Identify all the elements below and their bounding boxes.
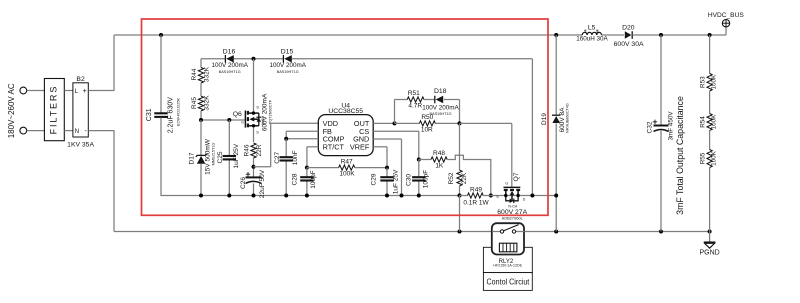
relay RLY2 contact — [500, 225, 518, 234]
wire R51 to D18 — [424, 99, 435, 101]
label RLY2 — [499, 259, 514, 265]
fuse B2 — [73, 83, 88, 137]
wire rail to R44 — [200, 59, 202, 68]
label U4 UCC38C55 — [328, 108, 363, 115]
resistor R47 — [339, 165, 355, 170]
diode D20 — [625, 31, 632, 39]
svg-text:Contol Circiut: Contol Circiut — [487, 277, 530, 287]
svg-text:100V 200mA: 100V 200mA — [211, 62, 248, 69]
svg-text:R53: R53 — [700, 76, 707, 88]
resistor R44 — [198, 68, 203, 84]
wire CS net — [373, 131, 419, 159]
svg-text:1uF 25V: 1uF 25V — [233, 143, 240, 168]
label L5 — [588, 24, 596, 31]
wire R54 to R55 — [709, 131, 711, 150]
label U4 pin VDD — [323, 119, 338, 128]
highlight box — [142, 19, 549, 215]
label D17 value 15V 500mW — [204, 138, 211, 175]
label D19 value 600V 8A — [559, 107, 566, 133]
label 180V~260V AC — [7, 83, 16, 138]
label Q6 value 600V 200mA — [261, 93, 268, 131]
svg-text:D: D — [256, 106, 259, 110]
wire filters to B2 (L) — [64, 90, 73, 92]
label R47 — [341, 158, 353, 165]
svg-text:N: N — [75, 128, 79, 135]
label R53 — [700, 76, 707, 88]
control circuit box — [483, 273, 532, 291]
label D18 — [434, 88, 447, 95]
svg-text:C30: C30 — [406, 174, 413, 186]
svg-text:D: D — [523, 198, 526, 202]
svg-text:R54: R54 — [700, 116, 707, 128]
label C32 value 3mF 450V — [667, 111, 674, 141]
wire C26 to rail — [253, 183, 255, 195]
svg-text:C31: C31 — [146, 108, 153, 121]
capacitor C27 — [280, 157, 293, 160]
wire to PGND — [709, 232, 711, 243]
wire C27 drop — [285, 139, 287, 196]
transistor Q7 — [491, 187, 556, 203]
svg-text:R45: R45 — [191, 97, 198, 109]
wire C30 drop — [418, 160, 420, 196]
label C31 partno — [176, 98, 180, 126]
svg-text:600V 200mA: 600V 200mA — [261, 93, 268, 131]
svg-text:L: L — [75, 88, 79, 95]
label L5 value 160uH 30A — [576, 36, 608, 43]
label C30 value 100pF — [423, 170, 430, 188]
wire top bus right — [632, 34, 726, 36]
label R45 — [191, 97, 198, 109]
label D19 partno — [566, 103, 570, 133]
wire OUT net — [373, 122, 394, 124]
svg-text:600V 30A: 600V 30A — [614, 41, 644, 48]
svg-text:22K: 22K — [461, 172, 468, 184]
zener D17 — [196, 154, 207, 164]
relay RLY2 coil — [499, 243, 517, 252]
wire bus inside relay right — [516, 231, 525, 233]
junction rail / C29 — [385, 194, 389, 198]
label R49 value 0.1R 1W — [463, 199, 489, 206]
wire B2 N to bottom bus — [88, 130, 114, 231]
label U4 pin GND — [353, 135, 369, 144]
svg-text:160uH 30A: 160uH 30A — [576, 36, 608, 43]
wire L terminal to filters — [27, 90, 45, 92]
junction rail / C26 — [252, 194, 256, 198]
label B2 pin + — [83, 86, 87, 95]
svg-text:D15: D15 — [281, 48, 294, 55]
svg-text:D17: D17 — [188, 152, 195, 164]
wire GND net — [373, 139, 401, 196]
svg-text:NRVUB860CT4G: NRVUB860CT4G — [566, 103, 570, 133]
svg-text:100pF: 100pF — [423, 170, 430, 188]
label R54 value 100K — [711, 114, 718, 130]
label C29 — [371, 173, 378, 185]
junction RT/CT / R47 / C28 — [305, 166, 309, 170]
svg-text:4.7R: 4.7R — [408, 102, 422, 109]
junction D19 line / drain wire — [554, 194, 558, 198]
junction top bus / D19 — [554, 33, 558, 37]
svg-text:22uF 50V: 22uF 50V — [259, 169, 266, 198]
capacitor C31 — [154, 113, 167, 117]
label R48 value 1K — [435, 162, 444, 169]
svg-text:G: G — [241, 120, 244, 124]
wire D19 upper — [555, 35, 557, 115]
capacitor C26 — [246, 177, 262, 183]
label Q7 N-CH — [508, 204, 517, 208]
svg-text:RT/CT: RT/CT — [323, 143, 345, 152]
wire gate drive — [460, 123, 512, 187]
resistor R54 — [707, 114, 712, 131]
svg-text:ECW-FD2J225K: ECW-FD2J225K — [176, 98, 180, 126]
label B2 pin L — [75, 88, 79, 95]
label Q7 — [513, 172, 520, 181]
label C30 — [406, 174, 413, 186]
svg-text:22R: 22R — [256, 144, 263, 156]
svg-text:BAS19HT1G: BAS19HT1G — [277, 70, 299, 74]
label Q6 pin G — [241, 120, 244, 124]
label B2 — [76, 76, 85, 83]
svg-text:100V 200mA: 100V 200mA — [422, 104, 459, 111]
junction OUT loop left — [393, 121, 397, 125]
svg-text:R49: R49 — [470, 186, 482, 193]
svg-text:100pF: 100pF — [310, 170, 317, 188]
svg-text:R50: R50 — [421, 114, 433, 121]
label RLY2 partno — [493, 263, 522, 267]
label D19 — [541, 113, 548, 125]
label D20 — [622, 24, 635, 31]
label Q6 N-CH — [261, 116, 265, 125]
capacitor C32 — [654, 126, 669, 132]
label PGND — [699, 249, 719, 256]
terminal AC input L — [20, 87, 27, 94]
svg-text:R48: R48 — [433, 150, 445, 157]
svg-text:G: G — [505, 182, 508, 186]
resistor R45 — [198, 96, 203, 111]
label C26 plus — [246, 172, 250, 176]
junction bottom bus / C32 — [659, 230, 663, 234]
junction top bus / C31 rail — [159, 33, 163, 37]
svg-text:L5: L5 — [588, 24, 596, 31]
label R49 — [470, 186, 482, 193]
label U4 pin OUT — [354, 119, 370, 128]
svg-text:R47: R47 — [341, 158, 353, 165]
relay RLY2 body — [492, 223, 524, 254]
junction VREF / R47 / C29 — [385, 166, 389, 170]
label B2 pin N — [75, 128, 79, 135]
capacitor C25 — [223, 156, 236, 159]
wire C25 drop — [228, 120, 230, 196]
svg-text:100K: 100K — [711, 150, 718, 166]
wire COMP net — [286, 138, 318, 140]
junction OUT loop right — [458, 121, 462, 125]
svg-text:2.2uF 630V: 2.2uF 630V — [168, 97, 175, 134]
inductor L5 — [582, 30, 601, 35]
terminal AC input N — [20, 127, 27, 134]
label Q6 — [233, 111, 242, 118]
label R55 value 100K — [711, 150, 718, 166]
ground PGND — [704, 242, 716, 248]
label R51 — [408, 90, 420, 97]
label R55 — [700, 152, 707, 164]
resistor R53 — [707, 73, 712, 91]
label B2 value 1KV 35A — [67, 142, 94, 149]
svg-text:D20: D20 — [622, 24, 635, 31]
junction rail / GND — [400, 194, 404, 198]
svg-text:FILTERS: FILTERS — [49, 85, 59, 135]
junction gate row / C25 — [227, 118, 231, 122]
wire top bus left — [114, 34, 582, 36]
wire gate node to D17 — [200, 120, 202, 155]
junction inner rail / Q6 drain — [252, 57, 256, 61]
svg-text:HF2150-1A-12DE: HF2150-1A-12DE — [493, 263, 522, 267]
wire C31 rail upper — [160, 35, 162, 113]
label D16 — [223, 48, 236, 55]
svg-text:3mF 450V: 3mF 450V — [667, 111, 674, 141]
svg-text:C27: C27 — [274, 151, 281, 163]
label C31 value 2.2uF 630V — [168, 97, 175, 134]
wire loop down-right — [444, 100, 460, 124]
label D16 value 100V 200mA — [211, 62, 248, 69]
label Q6 partno — [268, 99, 272, 124]
power port HVDC_BUS — [722, 20, 729, 27]
svg-text:D19: D19 — [541, 113, 548, 125]
label R54 — [700, 116, 707, 128]
svg-text:R44: R44 — [191, 68, 198, 80]
svg-text:N-CH: N-CH — [508, 204, 517, 208]
resistor R51 — [407, 97, 424, 102]
junction VDD / C26 node — [252, 165, 256, 169]
label C32 note — [675, 96, 685, 215]
junction Q7 drain node — [530, 194, 534, 198]
svg-text:100K: 100K — [711, 114, 718, 130]
label C25 — [217, 151, 224, 163]
relay module box — [483, 247, 532, 272]
junction gate row / D17 — [199, 118, 203, 122]
svg-text:10R: 10R — [421, 127, 433, 134]
junction bottom bus / D19 line — [554, 230, 558, 234]
label Q7 pin D — [523, 198, 526, 202]
junction rail / R52 — [458, 194, 462, 198]
label C25 value 1uF 25V — [233, 143, 240, 168]
svg-text:C29: C29 — [371, 173, 378, 185]
transistor Q6 — [245, 59, 261, 142]
wire inner top rail — [201, 59, 532, 196]
label R52 — [448, 172, 455, 184]
label C26 value 22uF 50V — [259, 169, 266, 198]
wire filters to B2 (N) — [64, 130, 73, 132]
label U4 pin VREF — [350, 143, 370, 152]
wire VDD net — [254, 123, 319, 167]
capacitor C28 — [300, 177, 313, 180]
label C29 value 1uF 25V — [392, 169, 399, 194]
svg-text:HVDC_BUS: HVDC_BUS — [708, 12, 745, 19]
svg-text:D16: D16 — [223, 48, 236, 55]
label Q7 value 600V 27A — [497, 209, 527, 216]
diode D15 — [283, 55, 291, 63]
wire R46 to C26 node — [253, 158, 255, 177]
capacitor C29 — [380, 177, 393, 180]
label U4 — [341, 103, 350, 110]
svg-text:15V 500mW: 15V 500mW — [204, 138, 211, 175]
label U4 pin COMP — [323, 135, 345, 144]
svg-text:R46: R46 — [243, 144, 250, 156]
svg-text:Q6: Q6 — [233, 111, 242, 118]
label R53 value 100K — [711, 74, 718, 90]
svg-text:100K: 100K — [339, 171, 355, 178]
label R50 value 10R — [421, 127, 433, 134]
wire top bus mid — [602, 34, 625, 36]
svg-text:MMSZ15T1G: MMSZ15T1G — [212, 143, 216, 166]
label C32 plus — [653, 120, 657, 124]
label D15 partno — [277, 70, 299, 74]
svg-text:1uF 25V: 1uF 25V — [392, 169, 399, 194]
label Q7 pin G — [505, 182, 508, 186]
wire B2 L to top bus — [88, 35, 114, 91]
wire N terminal to filters — [27, 130, 45, 132]
svg-text:PGND: PGND — [699, 249, 719, 256]
wire R52 to rail — [459, 186, 461, 196]
svg-text:332K: 332K — [203, 66, 210, 82]
label R50 — [421, 114, 433, 121]
svg-text:B2: B2 — [76, 76, 85, 83]
wire J1 to R52 — [459, 123, 461, 170]
label Q6 pin D — [256, 106, 259, 110]
svg-text:C26: C26 — [240, 177, 247, 189]
svg-text:1K: 1K — [435, 162, 444, 169]
label R45 value 332K — [203, 95, 210, 111]
label D18 partno — [430, 112, 452, 116]
junction rail / C30 — [417, 194, 421, 198]
label R47 value 100K — [339, 171, 355, 178]
label C31 — [146, 108, 153, 121]
wire gate row — [201, 119, 245, 121]
wire bottom bus right — [516, 231, 710, 233]
svg-text:AOB27S60L: AOB27S60L — [502, 216, 523, 220]
filters block — [44, 79, 64, 141]
wire R53 to R54 — [709, 91, 711, 114]
junction rail / C27 — [284, 194, 288, 198]
label C32 — [647, 121, 654, 133]
resistor R49 — [460, 193, 491, 198]
junction rail / C25 — [227, 194, 231, 198]
wire loop up-left — [395, 100, 408, 124]
label U4 pin FB — [323, 127, 332, 136]
junction top bus / R53 — [708, 33, 712, 37]
wire FB net — [286, 131, 318, 139]
label C28 value 100pF — [310, 170, 317, 188]
resistor R46 — [251, 143, 256, 158]
label D20 value 600V 30A — [614, 41, 644, 48]
svg-text:100K: 100K — [711, 74, 718, 90]
label U4 pin CS — [359, 127, 369, 136]
label R48 — [433, 150, 445, 157]
label C26 — [240, 177, 247, 189]
wire R47 right lead — [355, 167, 387, 169]
label Q7 pin S — [496, 195, 499, 199]
svg-text:BAS19HT1G: BAS19HT1G — [219, 70, 241, 74]
wire D17 to ground rail — [200, 164, 202, 196]
label D15 value 100V 200mA — [269, 62, 306, 69]
resistor R55 — [707, 150, 712, 168]
svg-text:+: + — [83, 86, 87, 95]
label C27 — [274, 151, 281, 163]
junction bottom bus / PGND — [708, 230, 712, 234]
wire R48 right with hop — [447, 155, 490, 195]
resistor R48 — [431, 157, 447, 162]
svg-text:10nF: 10nF — [292, 150, 299, 165]
label Q6 pin S — [256, 131, 259, 135]
wire ground drop to bottom bus — [459, 196, 461, 232]
wire R47 left lead — [307, 167, 339, 169]
svg-text:UCC38C55: UCC38C55 — [328, 108, 363, 115]
label R51 value 4.7R — [408, 102, 422, 109]
svg-text:C25: C25 — [217, 151, 224, 163]
diode D19 — [552, 115, 560, 123]
op-amp U4 UCC38C55 body — [318, 115, 373, 156]
diode D16 — [225, 55, 233, 63]
wire R45 to gate node — [200, 111, 202, 120]
wire C29 drop — [386, 168, 388, 196]
svg-text:R52: R52 — [448, 172, 455, 184]
label D16 partno — [219, 70, 241, 74]
label R44 value 332K — [203, 66, 210, 82]
resistor R52 — [457, 170, 462, 186]
svg-text:3mF Total Output Capacitance: 3mF Total Output Capacitance — [675, 96, 685, 215]
label R52 value 22K — [461, 172, 468, 184]
label Q7 partno — [502, 216, 523, 220]
label U4 pin RT/CT — [323, 143, 345, 152]
junction bottom bus / ground drop — [458, 230, 462, 234]
wire bus inside relay left — [492, 231, 500, 233]
label R44 — [191, 68, 198, 80]
label Contol Circiut — [487, 277, 530, 287]
svg-text:VREF: VREF — [350, 143, 370, 152]
svg-text:1KV 35A: 1KV 35A — [67, 142, 94, 149]
diode D18 — [435, 96, 443, 104]
wire VREF net — [373, 147, 387, 168]
junction CS / R48 / C30 — [417, 158, 421, 162]
wire R44 to R45 — [200, 83, 202, 96]
svg-text:C32: C32 — [647, 121, 654, 133]
label D15 — [281, 48, 294, 55]
label D17 partno — [212, 143, 216, 166]
svg-text:R51: R51 — [408, 90, 420, 97]
wire R55 to bottom bus — [709, 168, 711, 232]
label C28 — [292, 173, 299, 185]
svg-text:R55: R55 — [700, 152, 707, 164]
capacitor C30 — [412, 177, 425, 180]
label D18 value 100V 200mA — [422, 104, 459, 111]
svg-text:Q7: Q7 — [513, 172, 520, 181]
wire C28 drop — [306, 168, 308, 196]
junction rail / D17 — [199, 194, 203, 198]
label C27 value 10nF — [292, 150, 299, 165]
label R46 — [243, 144, 250, 156]
svg-text:0.1R 1W: 0.1R 1W — [463, 199, 489, 206]
svg-text:332K: 332K — [203, 95, 210, 111]
wire to HVDC_BUS port — [725, 27, 727, 35]
junction top bus / C32 — [659, 33, 663, 37]
label B2 pin - — [84, 126, 87, 135]
svg-text:100V 200mA: 100V 200mA — [269, 62, 306, 69]
svg-text:D18: D18 — [434, 88, 447, 95]
resistor R50 — [395, 121, 460, 126]
label D17 — [188, 152, 195, 164]
junction FB/COMP — [284, 137, 288, 141]
wire bottom bus left — [114, 231, 500, 233]
wire C31 rail lower — [160, 118, 459, 196]
wire RT/CT net — [307, 147, 318, 168]
